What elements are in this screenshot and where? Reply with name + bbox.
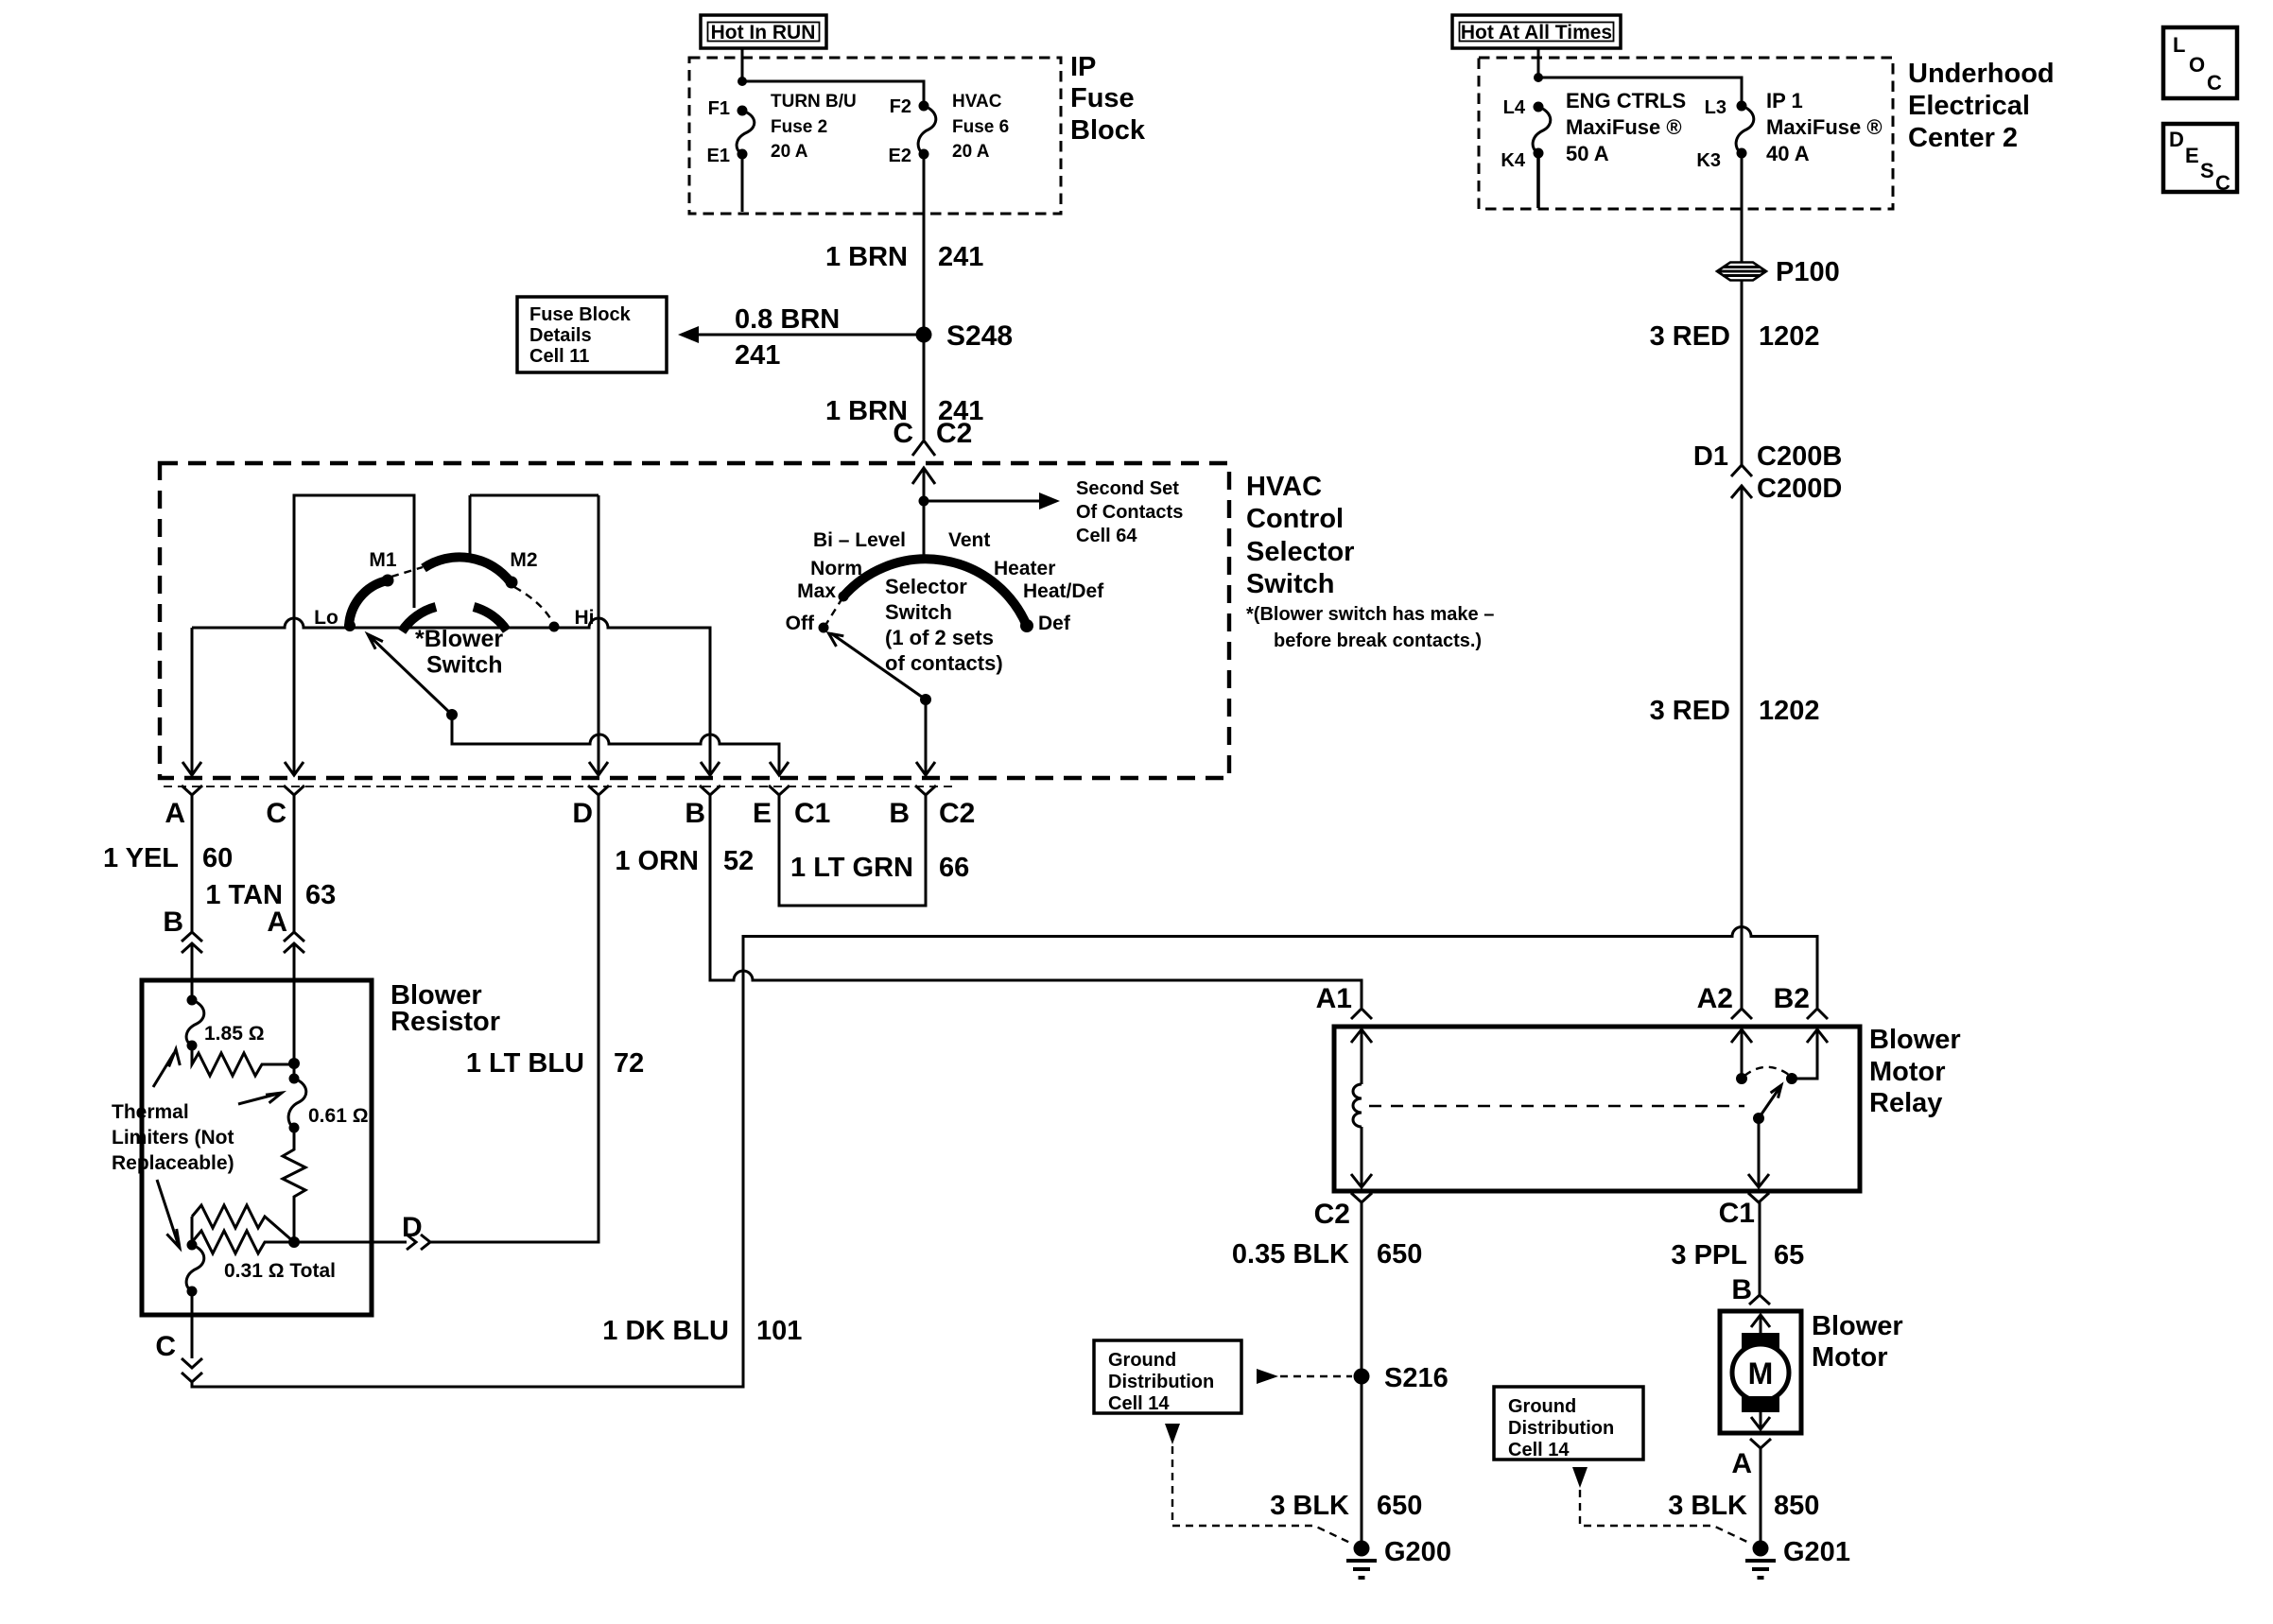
connector fork C2 below relay <box>1351 1193 1372 1202</box>
label box Hot In RUN <box>701 15 826 48</box>
wire label 3 RED 1202 upper <box>1650 321 1820 352</box>
wire label 3 PPL 65 <box>1671 1240 1804 1270</box>
svg-text:before break contacts.): before break contacts.) <box>1274 631 1482 651</box>
svg-text:3 PPL: 3 PPL <box>1671 1240 1747 1270</box>
svg-text:650: 650 <box>1377 1491 1422 1521</box>
exit arrow E at box edge <box>770 762 789 775</box>
svg-text:C: C <box>266 798 286 829</box>
node relay contact B2 <box>1786 1073 1797 1084</box>
svg-text:Norm: Norm <box>810 558 862 579</box>
svg-text:Blower: Blower <box>1869 1025 1961 1055</box>
value label IP 1 MaxiFuse 40 A <box>1766 89 1883 165</box>
svg-text:0.61 Ω: 0.61 Ω <box>308 1105 369 1127</box>
svg-text:L: L <box>2173 33 2185 57</box>
reference box Fuse Block Details Cell 11 <box>517 297 667 372</box>
svg-text:F2: F2 <box>890 96 911 117</box>
wire from Hot In RUN to junction <box>741 48 744 81</box>
wire limiter3 to box bottom <box>191 1291 194 1358</box>
svg-text:MaxiFuse ®: MaxiFuse ® <box>1566 115 1682 139</box>
svg-text:Hot At All Times: Hot At All Times <box>1461 22 1612 43</box>
svg-text:G200: G200 <box>1384 1537 1451 1567</box>
dashed travel M1 to top arc <box>391 567 423 577</box>
wire label 0.8 BRN 241 <box>735 304 840 371</box>
component name Blower Resistor <box>390 980 500 1037</box>
selector arc def end blob <box>1020 619 1033 632</box>
svg-text:A1: A1 <box>1316 983 1352 1014</box>
svg-text:0.8 BRN: 0.8 BRN <box>735 304 840 335</box>
svg-text:A: A <box>1731 1448 1752 1479</box>
selector switch contact arc <box>842 559 1027 626</box>
wire junction down to selector arc <box>923 501 926 560</box>
wire arrow to second set of contacts <box>924 492 1060 510</box>
svg-text:Ground: Ground <box>1108 1350 1176 1371</box>
svg-text:Replaceable): Replaceable) <box>112 1152 234 1174</box>
annotation Thermal Limiters <box>112 1101 234 1174</box>
wire wiper pivot to E exit <box>452 715 779 775</box>
blower switch small arc right <box>474 607 507 631</box>
svg-text:C2: C2 <box>939 798 975 829</box>
svg-text:M1: M1 <box>369 549 396 571</box>
wire S248 down to connector <box>923 335 926 440</box>
svg-text:IP 1: IP 1 <box>1766 89 1803 112</box>
wire arrow to Fuse Block Details <box>678 326 924 343</box>
svg-text:B: B <box>1731 1274 1752 1305</box>
svg-text:Selector: Selector <box>1246 537 1354 567</box>
svg-text:20 A: 20 A <box>771 142 808 162</box>
wire E1 stub <box>741 159 744 212</box>
motor M symbol <box>1732 1315 1789 1429</box>
connector fork C1 below relay <box>1748 1193 1769 1202</box>
annotation arrow to limiter 1 <box>153 1049 180 1087</box>
svg-text:E: E <box>2185 144 2199 167</box>
connector fork A1 at relay <box>1351 1009 1372 1019</box>
svg-text:72: 72 <box>614 1048 644 1079</box>
svg-text:Fuse: Fuse <box>1070 83 1135 113</box>
svg-text:3 RED: 3 RED <box>1650 321 1730 352</box>
svg-text:Fuse 6: Fuse 6 <box>952 117 1009 137</box>
wire label 0.35 BLK 650 <box>1232 1239 1423 1270</box>
fuse F2/E2 HVAC Fuse 6 20A <box>918 101 936 160</box>
wire A internal segment <box>293 1063 296 1079</box>
wire A inside box <box>191 628 194 775</box>
selector pivot node <box>920 694 931 705</box>
svg-text:1 LT BLU: 1 LT BLU <box>466 1048 584 1079</box>
svg-text:1202: 1202 <box>1759 696 1820 726</box>
connector fork E <box>769 786 789 795</box>
svg-text:Heater: Heater <box>994 558 1055 579</box>
svg-text:1 DK BLU: 1 DK BLU <box>602 1316 729 1346</box>
value label Fuse 6 <box>952 92 1009 162</box>
value label Fuse 2 <box>771 92 857 162</box>
svg-text:K4: K4 <box>1501 150 1525 171</box>
splice S216 <box>1354 1369 1370 1385</box>
IP fuse block dashed box <box>689 58 1061 214</box>
svg-text:60: 60 <box>202 843 233 873</box>
svg-text:of contacts): of contacts) <box>885 651 1003 675</box>
dashed travel Off to Max <box>824 596 843 627</box>
wire K4 stub <box>1536 158 1540 208</box>
svg-text:E2: E2 <box>889 146 911 166</box>
svg-text:101: 101 <box>756 1316 802 1346</box>
svg-text:Resistor: Resistor <box>390 1007 500 1037</box>
wire label 1 ORN 52 <box>615 846 754 876</box>
svg-text:3 RED: 3 RED <box>1650 696 1730 726</box>
svg-text:A: A <box>165 798 185 829</box>
svg-text:M2: M2 <box>510 549 537 571</box>
svg-text:Block: Block <box>1070 115 1146 146</box>
dashed contact travel arc <box>1744 1067 1789 1076</box>
svg-text:Center 2: Center 2 <box>1908 123 2018 153</box>
annotation arrow to limiter 2 <box>238 1093 282 1104</box>
svg-text:Blower: Blower <box>1812 1311 1903 1341</box>
note blower switch make before break <box>1246 604 1494 651</box>
connector fork at HVAC C2 <box>912 441 935 456</box>
blower switch wiper arrow <box>368 634 452 715</box>
svg-text:650: 650 <box>1377 1239 1422 1270</box>
svg-text:P100: P100 <box>1776 257 1840 287</box>
wire element3 left link <box>191 1217 194 1245</box>
svg-text:S: S <box>2200 159 2214 182</box>
relay contact A2 branch <box>1731 1029 1752 1079</box>
blower switch pivot node <box>446 709 458 720</box>
thin dashed connector line below box <box>164 786 955 787</box>
dashed travel M2 to Hi <box>514 587 553 623</box>
wire selector pivot down to C2 exit <box>925 700 928 775</box>
svg-text:Max: Max <box>797 580 836 602</box>
connector chevrons resistor D <box>407 1235 430 1250</box>
svg-text:Details: Details <box>529 325 592 346</box>
Underhood Electrical Center 2 dashed box <box>1479 58 1893 209</box>
dashed arrow Ground Distribution to G200 <box>1165 1424 1352 1544</box>
svg-text:Control: Control <box>1246 504 1344 534</box>
blower motor box <box>1720 1311 1801 1433</box>
svg-text:40 A: 40 A <box>1766 142 1810 165</box>
wire from Hot At All Times to junction <box>1537 48 1540 78</box>
connector fork B2 at relay <box>1807 1009 1828 1019</box>
svg-text:C: C <box>2215 171 2230 195</box>
svg-text:Limiters (Not: Limiters (Not <box>112 1127 234 1149</box>
wire label 1 DK BLU 101 <box>602 1316 802 1346</box>
contact Off <box>819 623 829 633</box>
exit arrow B at box edge <box>701 762 720 775</box>
wire E2 down to S248 <box>923 159 926 335</box>
svg-text:Underhood: Underhood <box>1908 59 2055 89</box>
fuse L3/K3 IP 1 MaxiFuse 40A <box>1736 101 1754 159</box>
fuse L4/K4 ENG CTRLS MaxiFuse 50A <box>1533 102 1551 159</box>
wire C harness 1 TAN 63 <box>293 795 296 932</box>
pin letters below box <box>165 798 975 829</box>
component name Blower Motor Relay <box>1869 1025 1961 1118</box>
svg-text:*(Blower switch has make –: *(Blower switch has make – <box>1246 604 1494 625</box>
svg-text:L4: L4 <box>1503 97 1526 118</box>
svg-text:B2: B2 <box>1774 983 1810 1014</box>
svg-text:Motor: Motor <box>1869 1057 1946 1087</box>
resistor element 1 <box>192 1045 294 1076</box>
resistor element 2 vertical <box>283 1128 305 1242</box>
ground G200 <box>1346 1537 1451 1578</box>
svg-text:C1: C1 <box>1719 1198 1755 1229</box>
svg-text:D: D <box>402 1212 423 1243</box>
svg-text:Switch: Switch <box>426 652 503 679</box>
wire relay C1 to blower motor 3 PPL 65 <box>1759 1202 1761 1295</box>
contact Hi <box>549 622 560 632</box>
pin C connector C2 labels <box>893 418 972 449</box>
wire resistor D stub <box>294 1241 407 1244</box>
svg-text:850: 850 <box>1774 1491 1819 1521</box>
exit arrow A at box edge <box>182 762 201 775</box>
svg-text:Bi – Level: Bi – Level <box>813 529 906 551</box>
svg-text:G201: G201 <box>1783 1537 1850 1567</box>
connector fork motor A <box>1750 1439 1771 1448</box>
splice P100 <box>1717 257 1840 287</box>
component name IP Fuse Block <box>1070 52 1146 146</box>
connector arrow C200D <box>1731 486 1752 1009</box>
reference box Ground Distribution Cell 14 right <box>1494 1387 1643 1460</box>
splice S248 <box>916 327 932 343</box>
connector fork D <box>588 786 609 795</box>
svg-text:1 LT GRN: 1 LT GRN <box>790 853 913 883</box>
node junction above F1 <box>737 77 747 86</box>
svg-text:Switch: Switch <box>1246 569 1334 599</box>
connector fork A <box>182 786 202 795</box>
svg-text:Hi: Hi <box>575 607 595 629</box>
svg-text:Cell 11: Cell 11 <box>529 346 589 367</box>
blower switch right loop rect <box>470 495 599 561</box>
dashed actuator link <box>1369 1105 1744 1107</box>
wire label 1 BRN 241 lower <box>825 396 983 426</box>
contact M2 end <box>506 577 518 589</box>
svg-text:Cell 64: Cell 64 <box>1076 526 1137 546</box>
resistor element 3 upper row <box>192 1205 294 1242</box>
connector fork C200B <box>1731 465 1752 476</box>
svg-text:O: O <box>2189 53 2205 77</box>
LOC legend box <box>2163 27 2237 98</box>
blower switch top arc M1 to M2 <box>424 557 511 582</box>
wire label 1 BRN 241 upper <box>825 242 983 272</box>
svg-text:ENG CTRLS: ENG CTRLS <box>1566 89 1686 112</box>
reference box Ground Distribution Cell 14 left <box>1094 1340 1241 1414</box>
svg-text:Motor: Motor <box>1812 1342 1888 1373</box>
connector fork C2 <box>915 786 936 795</box>
wire junction to L3 <box>1538 78 1742 106</box>
selector wiper arrow <box>829 633 927 700</box>
thermal limiter 1 <box>186 995 204 1051</box>
node relay contact A2 <box>1736 1073 1747 1084</box>
svg-text:Distribution: Distribution <box>1508 1418 1614 1439</box>
resistor element 3 lower row <box>192 1231 294 1253</box>
relay contact B2 branch <box>1792 1029 1828 1079</box>
pin labels A1 A2 B2 <box>1316 983 1810 1014</box>
connector chevrons resistor C <box>182 1358 202 1382</box>
svg-text:Lo: Lo <box>314 607 338 629</box>
svg-text:Switch: Switch <box>885 600 952 624</box>
svg-text:Distribution: Distribution <box>1108 1372 1214 1392</box>
component name HVAC Control Selector Switch <box>1246 472 1354 599</box>
svg-text:Selector: Selector <box>885 575 967 598</box>
wire label 3 BLK 650 <box>1270 1491 1422 1521</box>
svg-text:52: 52 <box>723 846 754 876</box>
svg-text:Ground: Ground <box>1508 1396 1576 1417</box>
svg-text:Fuse 2: Fuse 2 <box>771 117 827 137</box>
svg-text:1 ORN: 1 ORN <box>615 846 699 876</box>
svg-text:IP: IP <box>1070 52 1096 82</box>
dashed arrow Ground Distribution to S216 <box>1257 1369 1352 1384</box>
selector arc max end blob <box>839 592 849 602</box>
svg-text:20 A: 20 A <box>952 142 990 162</box>
svg-text:0.31 Ω Total: 0.31 Ω Total <box>224 1260 336 1282</box>
wire motor A to G201 3 BLK 850 <box>1760 1448 1762 1541</box>
svg-text:Cell 14: Cell 14 <box>1108 1393 1170 1414</box>
contact M1 <box>382 575 394 587</box>
svg-text:B: B <box>889 798 910 829</box>
svg-text:Fuse Block: Fuse Block <box>529 304 632 325</box>
svg-text:66: 66 <box>939 853 969 883</box>
svg-text:1202: 1202 <box>1759 321 1820 352</box>
svg-text:3 BLK: 3 BLK <box>1270 1491 1349 1521</box>
wire P100 to C200 <box>1741 281 1744 465</box>
blower switch small arc left <box>402 607 436 631</box>
wire label 1 TAN 63 <box>205 880 336 910</box>
wire B harness 1 ORN 52 to relay A1 <box>710 795 1362 1008</box>
svg-text:HVAC: HVAC <box>1246 472 1322 502</box>
svg-text:S248: S248 <box>946 320 1013 352</box>
svg-text:Of Contacts: Of Contacts <box>1076 502 1183 523</box>
svg-text:B: B <box>163 907 183 938</box>
svg-text:C2: C2 <box>1314 1199 1350 1230</box>
node resistor D junction <box>288 1236 300 1248</box>
wire label 1 YEL 60 <box>103 843 233 873</box>
node junction above L4 <box>1534 73 1543 82</box>
svg-text:HVAC: HVAC <box>952 92 1002 112</box>
svg-text:C: C <box>2207 71 2222 95</box>
svg-text:D1: D1 <box>1693 441 1728 472</box>
svg-text:Relay: Relay <box>1869 1088 1942 1118</box>
svg-text:3 BLK: 3 BLK <box>1668 1491 1747 1521</box>
connector fork C <box>284 786 304 795</box>
value label ENG CTRLS MaxiFuse 50 A <box>1566 89 1686 165</box>
exit arrow D at box edge <box>589 762 608 775</box>
blower switch labels <box>314 549 594 679</box>
connector arrow into HVAC box <box>912 468 935 501</box>
svg-text:C200D: C200D <box>1757 474 1842 504</box>
pin D1 connector C200B C200D labels <box>1693 441 1842 504</box>
wire junction to F2 <box>742 81 924 106</box>
wire D inside box <box>598 495 600 775</box>
selector position labels <box>786 529 1105 634</box>
relay movable blade arrow <box>1759 1085 1781 1118</box>
connector chevrons wire A to resistor B <box>182 932 202 1000</box>
wire label 3 RED 1202 lower <box>1650 696 1820 726</box>
wire 1 DK BLU 101 resistor C to relay B2 <box>192 927 1817 1388</box>
svg-text:1.85 Ω: 1.85 Ω <box>204 1023 265 1045</box>
svg-text:F1: F1 <box>708 98 730 119</box>
svg-text:Vent: Vent <box>948 529 990 551</box>
dashed arrow Ground Distribution to G201 <box>1572 1467 1751 1544</box>
svg-text:C200B: C200B <box>1757 441 1842 472</box>
svg-text:Heat/Def: Heat/Def <box>1023 580 1104 602</box>
blower resistor box <box>142 980 372 1315</box>
svg-text:A: A <box>267 907 287 938</box>
annotation arrow to limiter 3 <box>157 1180 180 1248</box>
blower switch left loop rect <box>294 495 414 628</box>
thermal limiter 2 <box>288 1074 306 1133</box>
svg-text:Off: Off <box>786 613 815 634</box>
svg-text:K3: K3 <box>1696 150 1721 171</box>
wire K3 down to P100 <box>1741 158 1744 262</box>
svg-text:Hot In RUN: Hot In RUN <box>711 22 816 43</box>
selector switch caption <box>885 575 1003 675</box>
svg-text:241: 241 <box>735 340 780 371</box>
svg-text:Second Set: Second Set <box>1076 478 1179 499</box>
wire bus Lo-Hi with humps over C and D <box>192 618 710 775</box>
svg-text:TURN B/U: TURN B/U <box>771 92 857 112</box>
label box Hot At All Times <box>1452 15 1621 48</box>
fuse F1/E1 TURN B/U Fuse 2 20A <box>737 106 755 160</box>
exit arrow C at box edge <box>285 762 304 775</box>
svg-text:Thermal: Thermal <box>112 1101 189 1123</box>
svg-text:M: M <box>1748 1356 1774 1391</box>
relay blade to C1 exit <box>1748 1118 1769 1187</box>
connector fork motor B <box>1749 1295 1770 1304</box>
svg-text:(1 of 2 sets: (1 of 2 sets <box>885 626 994 649</box>
svg-text:Electrical: Electrical <box>1908 91 2030 121</box>
connector chevrons wire C to resistor A <box>284 932 304 1063</box>
svg-text:D: D <box>2169 128 2184 151</box>
svg-text:C2: C2 <box>936 418 972 449</box>
svg-text:C: C <box>155 1331 176 1362</box>
node resistor1 to wire A <box>288 1058 300 1069</box>
svg-text:Cell 14: Cell 14 <box>1508 1440 1570 1460</box>
DESC legend box <box>2163 124 2237 195</box>
node second set junction <box>919 496 929 507</box>
svg-text:L3: L3 <box>1705 97 1726 118</box>
blower switch arc Lo to M1 <box>349 580 388 628</box>
svg-text:1 YEL: 1 YEL <box>103 843 179 873</box>
wire C inside box <box>293 495 296 775</box>
wire label 3 BLK 850 <box>1668 1491 1819 1521</box>
svg-text:C1: C1 <box>794 798 830 829</box>
blower motor relay box <box>1334 1027 1860 1191</box>
svg-text:E: E <box>753 798 772 829</box>
component name Blower Motor <box>1812 1311 1903 1373</box>
wire D harness 1 LT BLU 72 <box>430 795 599 1242</box>
thermal limiter 3 <box>186 1240 204 1297</box>
svg-text:1 BRN: 1 BRN <box>825 242 908 272</box>
wire relay C2 to ground 0.35 BLK 650 <box>1361 1202 1363 1541</box>
wire jumper loop E C1 to B C2 1 LT GRN 66 <box>779 795 926 906</box>
component name Underhood Electrical Center 2 <box>1908 59 2055 153</box>
connector fork B <box>700 786 720 795</box>
svg-text:B: B <box>685 798 705 829</box>
wire A harness 1 YEL 60 <box>191 795 194 932</box>
exit arrow C2 at box edge <box>916 762 935 775</box>
svg-text:0.35 BLK: 0.35 BLK <box>1232 1239 1349 1270</box>
reference text Second Set Of Contacts Cell 64 <box>1076 478 1183 546</box>
relay coil with entry and exit arrows <box>1351 1029 1372 1187</box>
wire label 1 LT BLU 72 <box>466 1048 644 1079</box>
svg-text:C: C <box>893 418 913 449</box>
svg-text:A2: A2 <box>1697 983 1733 1014</box>
svg-text:63: 63 <box>305 880 336 910</box>
wire label 1 LT GRN 66 <box>790 853 969 883</box>
svg-text:*Blower: *Blower <box>415 626 503 652</box>
svg-text:E1: E1 <box>707 146 730 166</box>
svg-text:D: D <box>572 798 593 829</box>
svg-text:241: 241 <box>938 242 983 272</box>
HVAC control selector switch dashed box <box>160 463 1229 778</box>
node relay blade pivot <box>1753 1113 1764 1124</box>
svg-text:65: 65 <box>1774 1240 1804 1270</box>
